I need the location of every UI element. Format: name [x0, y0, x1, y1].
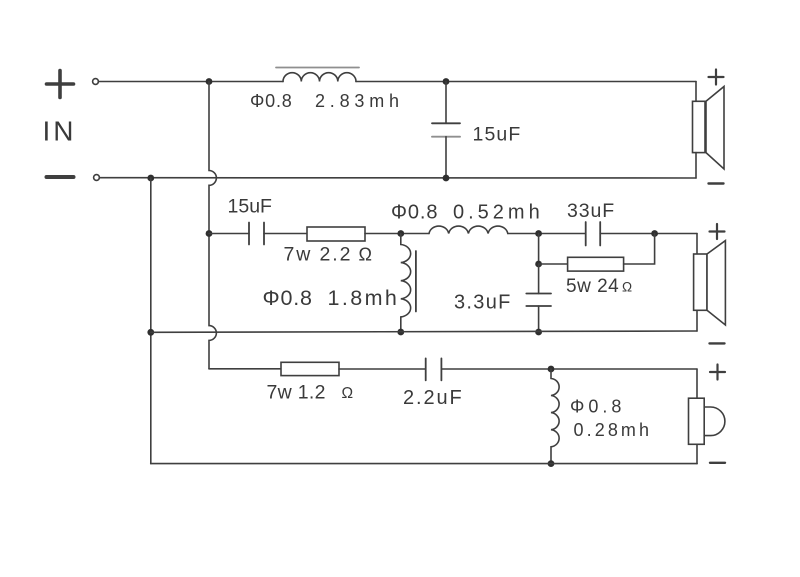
- svg-text:Ω: Ω: [359, 245, 372, 265]
- tweeter speaker: [689, 369, 725, 464]
- inductor L1 core line: [276, 67, 359, 69]
- node junction mid tap: [206, 230, 213, 237]
- wire down to R2: [538, 234, 540, 265]
- wire: [365, 233, 429, 235]
- node junction mid right: [651, 230, 658, 237]
- resistor R3 7w 1.2: [281, 362, 339, 375]
- capacitor C3 33uF: [586, 222, 601, 246]
- capacitor C1 15uF: [445, 82, 447, 124]
- node junction C4 bottom: [535, 329, 542, 336]
- tweeter plus mark: [710, 365, 725, 380]
- node junction L2 top: [397, 230, 404, 237]
- svg-text:3.3uF: 3.3uF: [454, 292, 512, 314]
- svg-text:7w 2.2: 7w 2.2: [284, 244, 353, 266]
- svg-text:Φ0.8: Φ0.8: [570, 397, 625, 417]
- node junction mid center: [535, 230, 542, 237]
- wire: [400, 317, 402, 332]
- node junction mid-bottom-left: [147, 329, 154, 336]
- mid bottom rail: [151, 331, 697, 332]
- wire: [339, 368, 426, 370]
- woofer plus mark: [709, 70, 724, 85]
- svg-text:7w 1.2: 7w 1.2: [267, 382, 326, 404]
- resistor R2 5w 24: [568, 257, 624, 271]
- wire plus rail: [99, 81, 284, 83]
- inductor L3 0.52mh: [429, 226, 508, 233]
- inductor L2 core line: [415, 251, 417, 312]
- wire minus rail: [100, 177, 697, 179]
- mid speaker plus mark: [710, 224, 725, 239]
- far-left vertical feeder: [150, 178, 152, 464]
- node junction L4 bottom: [548, 460, 555, 467]
- node junction top-left: [206, 78, 213, 85]
- wire: [539, 263, 568, 265]
- inductor L1 2.83mh: [283, 73, 356, 82]
- svg-text:2.83mh: 2.83mh: [315, 91, 404, 111]
- terminal circle minus: [94, 175, 100, 181]
- + input symbol: [47, 71, 74, 98]
- node junction C1 bottom: [443, 175, 450, 182]
- node junction L2 bottom: [397, 329, 404, 336]
- vertical feeder from plus node: [209, 82, 216, 369]
- svg-text:Ω: Ω: [622, 280, 632, 295]
- inductor L4 0.28mh vertical: [551, 369, 559, 464]
- svg-text:Φ0.8: Φ0.8: [250, 91, 293, 111]
- svg-text:15uF: 15uF: [228, 196, 273, 218]
- svg-text:Φ0.8: Φ0.8: [263, 286, 313, 310]
- mid speaker: [694, 234, 726, 332]
- inductor L2 1.8mh vertical: [401, 234, 411, 317]
- capacitor C5 2.2uF: [426, 358, 442, 380]
- resistor R1 7w 2.2: [307, 227, 365, 241]
- capacitor C4 3.3uF: [538, 264, 540, 294]
- svg-text:IN: IN: [43, 116, 77, 147]
- terminal circle plus: [93, 79, 99, 85]
- bottom rail: [151, 463, 697, 465]
- node junction L4 top: [548, 366, 555, 373]
- svg-text:15uF: 15uF: [473, 124, 522, 146]
- capacitor C2 15uF: [249, 223, 264, 245]
- wire: [356, 81, 696, 83]
- wire: [508, 233, 586, 235]
- node junction minus-left: [147, 175, 154, 182]
- svg-text:33uF: 33uF: [567, 200, 615, 222]
- svg-text:0.28mh: 0.28mh: [574, 420, 653, 440]
- - input symbol: [47, 175, 74, 179]
- node junction C1 top: [443, 78, 450, 85]
- svg-text:1.8mh: 1.8mh: [328, 286, 400, 310]
- svg-text:Ω: Ω: [342, 385, 354, 402]
- mid speaker minus mark: [710, 342, 725, 344]
- wire: [441, 368, 697, 370]
- tweeter minus mark: [710, 462, 725, 464]
- svg-text:2.2uF: 2.2uF: [403, 387, 464, 409]
- svg-text:Φ0.8: Φ0.8: [391, 202, 438, 224]
- node junction R2 left: [535, 261, 542, 268]
- wire: [264, 233, 307, 235]
- svg-text:0.52mh: 0.52mh: [453, 202, 544, 224]
- woofer minus mark: [709, 182, 724, 184]
- woofer speaker: [693, 82, 725, 179]
- wire: [624, 234, 655, 265]
- svg-text:5w 24: 5w 24: [566, 276, 619, 297]
- wire corner from feeder: [209, 368, 281, 370]
- wire: [209, 233, 249, 235]
- wire: [600, 233, 697, 235]
